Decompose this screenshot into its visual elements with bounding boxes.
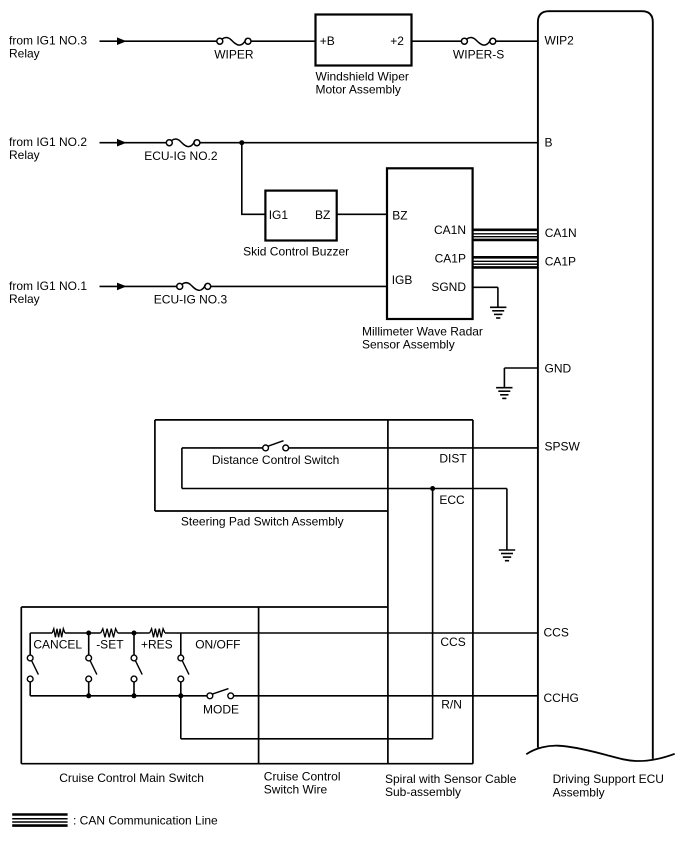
switch: Distance Control Switch: [212, 441, 339, 467]
junction: -SET top: [86, 631, 91, 636]
junction: B line tee to buzzer: [239, 140, 244, 145]
wire: +2 to WIPER-S: [412, 40, 462, 42]
wire: ECU GND to ground: [504, 368, 538, 387]
svg-text:Cruise Control: Cruise Control: [264, 770, 341, 784]
svg-text:BZ: BZ: [315, 208, 330, 222]
svg-text:ECU-IG NO.2: ECU-IG NO.2: [144, 149, 218, 163]
cruise control main switch box: [21, 607, 473, 764]
ground: SGND earth: [490, 306, 506, 308]
switch -SET: [86, 633, 124, 696]
svg-text:BZ: BZ: [392, 208, 407, 222]
svg-text:Skid Control Buzzer: Skid Control Buzzer: [243, 245, 349, 259]
svg-text:ECC: ECC: [439, 493, 465, 507]
node: from IG1 NO.3 Relay source label: [9, 34, 87, 61]
wire: buzzer BZ to radar BZ: [337, 213, 387, 215]
svg-text:CA1N: CA1N: [545, 226, 577, 240]
svg-text:Cruise Control Main Switch: Cruise Control Main Switch: [59, 771, 204, 785]
svg-text:WIP2: WIP2: [545, 34, 575, 48]
resistor R1 (CANCEL): [52, 629, 65, 638]
switch MODE: [203, 689, 239, 717]
wire: ECC line to ground: [182, 489, 507, 550]
svg-text:B: B: [545, 136, 553, 150]
wire: SGND to ground: [473, 287, 498, 307]
junction: +RES bottom: [132, 693, 137, 698]
svg-text:Distance Control Switch: Distance Control Switch: [212, 453, 339, 467]
wire: IG1 NO.3 feed with arrow: [100, 37, 217, 45]
wire: switch common rail: [30, 695, 207, 697]
svg-text:CA1N: CA1N: [434, 223, 466, 237]
wire: distance control switch branch left side: [182, 448, 263, 489]
svg-text:+B: +B: [320, 34, 335, 48]
legend: CAN line sample: [12, 813, 67, 816]
svg-text:CCHG: CCHG: [544, 691, 579, 705]
spiral cable channel verticals: [388, 420, 473, 764]
svg-text:CA1P: CA1P: [545, 255, 576, 269]
CAN bus CA1P triple line: [473, 256, 538, 259]
svg-text:Assembly: Assembly: [553, 785, 605, 799]
caption: Driving Support ECU Assembly: [553, 772, 664, 799]
fuse ECU-IG NO.2: [144, 139, 218, 163]
wire: ECC down to cruise switch common: [181, 489, 433, 739]
svg-text:Relay: Relay: [9, 148, 40, 162]
wire: IG1 NO.1 feed with arrow: [100, 283, 177, 291]
fuse WIPER-S: [453, 38, 504, 62]
svg-text:: CAN Communication Line: : CAN Communication Line: [73, 814, 218, 828]
switch ON/OFF: [178, 633, 241, 696]
caption: Cruise Control Switch Wire: [264, 770, 341, 797]
skid control buzzer box: [243, 191, 349, 259]
windshield wiper motor assembly box: [316, 15, 412, 97]
wire: cruise resistor rail to ECU CCS: [30, 632, 538, 634]
svg-text:Relay: Relay: [9, 47, 40, 61]
svg-text:MODE: MODE: [203, 703, 239, 717]
wire: WIPER-S to ECU WIP2: [496, 40, 538, 42]
junction: ECC tee: [430, 486, 435, 491]
svg-text:CA1P: CA1P: [435, 251, 466, 265]
steering pad switch assembly box: [155, 420, 473, 529]
wire: tee down to Skid Control Buzzer IG1: [241, 143, 265, 215]
svg-text:CANCEL: CANCEL: [33, 637, 82, 651]
svg-text:R/N: R/N: [441, 697, 462, 711]
svg-text:Relay: Relay: [9, 292, 40, 306]
fuse ECU-IG NO.3: [154, 283, 228, 307]
svg-text:from IG1 NO.1: from IG1 NO.1: [9, 279, 87, 293]
svg-text:from IG1 NO.3: from IG1 NO.3: [9, 34, 87, 48]
svg-text:SPSW: SPSW: [545, 440, 581, 454]
svg-text:from IG1 NO.2: from IG1 NO.2: [9, 135, 87, 149]
wire: ECU-IG NO.3 to radar IGB: [211, 285, 387, 287]
driving support ECU assembly box: [538, 11, 653, 759]
svg-text:+2: +2: [390, 34, 404, 48]
svg-text:CCS: CCS: [544, 626, 569, 640]
svg-text:WIPER: WIPER: [214, 47, 254, 61]
svg-text:Switch Wire: Switch Wire: [264, 783, 328, 797]
millimeter wave radar sensor assembly box: [362, 168, 483, 351]
svg-text:Spiral with Sensor Cable: Spiral with Sensor Cable: [385, 772, 517, 786]
switch +RES: [131, 633, 173, 696]
fuse WIPER: [214, 38, 254, 62]
wire: ECU-IG NO.2 to ECU pin B: [200, 142, 538, 144]
resistor R3 (+RES): [150, 629, 165, 638]
svg-text:ECU-IG NO.3: ECU-IG NO.3: [154, 293, 228, 307]
svg-text:Driving Support ECU: Driving Support ECU: [553, 772, 664, 786]
wire: MODE to ECU CCHG: [234, 695, 538, 697]
junction: ON/OFF bottom: [178, 693, 183, 698]
svg-text:Windshield Wiper: Windshield Wiper: [316, 69, 409, 83]
svg-text:IG1: IG1: [269, 208, 289, 222]
switch CANCEL: [27, 633, 82, 696]
wire: IG1 NO.2 feed with arrow: [100, 139, 167, 147]
caption: Spiral with Sensor Cable Sub-assembly: [385, 772, 517, 799]
svg-text:CCS: CCS: [440, 635, 465, 649]
svg-text:-SET: -SET: [96, 637, 124, 651]
node: from IG1 NO.2 Relay source label: [9, 135, 87, 162]
ECU torn-edge wave: [526, 746, 674, 761]
svg-text:SGND: SGND: [431, 280, 466, 294]
CAN bus CA1N triple line: [473, 229, 538, 232]
svg-text:DIST: DIST: [439, 452, 467, 466]
ground: ECC earth: [499, 549, 515, 551]
node: from IG1 NO.1 Relay source label: [9, 279, 87, 306]
junction: +RES top: [132, 631, 137, 636]
svg-text:Millimeter Wave Radar: Millimeter Wave Radar: [362, 325, 483, 339]
junction: -SET bottom: [86, 693, 91, 698]
resistor R2 (-SET): [101, 629, 118, 638]
svg-text:Steering Pad Switch Assembly: Steering Pad Switch Assembly: [181, 515, 344, 529]
svg-text:Motor Assembly: Motor Assembly: [316, 82, 401, 96]
svg-text:Sensor Assembly: Sensor Assembly: [362, 338, 455, 352]
ground: GND earth: [496, 387, 512, 389]
svg-text:ON/OFF: ON/OFF: [195, 637, 240, 651]
svg-text:WIPER-S: WIPER-S: [453, 48, 504, 62]
svg-text:GND: GND: [545, 362, 572, 376]
svg-text:Sub-assembly: Sub-assembly: [385, 785, 461, 799]
wire: distance control switch to ECU SPSW: [289, 447, 538, 449]
wire: WIPER fuse to +B: [251, 40, 316, 42]
svg-text:IGB: IGB: [392, 273, 413, 287]
svg-text:+RES: +RES: [141, 638, 173, 652]
